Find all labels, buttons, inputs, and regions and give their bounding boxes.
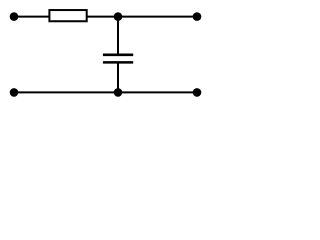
wire top rail: input node to resistor R1 left lead xyxy=(14,16,49,18)
capacitor C1 xyxy=(103,17,133,93)
node A: top junction dot xyxy=(114,12,123,21)
capacitor C1 bottom plate xyxy=(103,61,133,64)
node: bottom-left terminal xyxy=(10,88,19,97)
resistor R1 xyxy=(49,10,86,21)
wire: capacitor C1 bottom plate down to node B xyxy=(117,62,119,92)
capacitor C1 top plate xyxy=(103,54,133,57)
wire bottom rail: left terminal to node B xyxy=(14,91,118,93)
wire top rail: resistor R1 right lead to node A xyxy=(87,16,118,18)
wire: node A down to capacitor C1 top plate xyxy=(117,17,119,55)
wire top rail: node A to output node xyxy=(118,16,197,18)
wire bottom rail: node B to right terminal xyxy=(118,91,197,93)
node: bottom-right terminal xyxy=(193,88,202,97)
node B: bottom junction dot xyxy=(114,88,123,97)
node: output terminal (top-right) xyxy=(193,12,202,21)
node: input terminal (top-left) xyxy=(10,12,19,21)
